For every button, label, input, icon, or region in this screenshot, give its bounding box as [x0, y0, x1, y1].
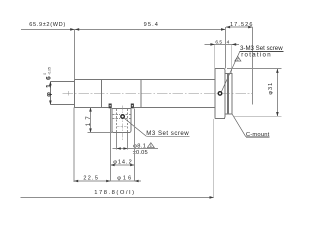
dim line 22.5 / phi16: [74, 180, 141, 182]
block set screw M3: [121, 115, 125, 119]
dim 6.5 / 4: [205, 43, 239, 45]
svg-text:φ8.1: φ8.1: [133, 143, 146, 149]
ext line at block bottom level: [87, 132, 112, 134]
label phi16 0/-0.05: [43, 67, 53, 97]
svg-text:φ31: φ31: [268, 83, 274, 95]
svg-text:2: 2: [237, 58, 239, 62]
hidden bore lines: [117, 109, 128, 132]
dim 17 vertical: [90, 108, 92, 133]
phi14.2 dimension line: [110, 164, 134, 166]
svg-text:-0.05: -0.05: [48, 67, 52, 75]
flange: [215, 69, 225, 119]
thread lines: [226, 73, 228, 114]
phi16 / 22.5 extension lines: [74, 108, 134, 182]
svg-text:φ16: φ16: [117, 175, 131, 181]
phi8.1 extension lines: [117, 133, 128, 150]
svg-text:22.5: 22.5: [83, 175, 98, 181]
svg-text:±0.05: ±0.05: [133, 150, 148, 156]
ext line barrel right up: [231, 45, 233, 74]
right retaining ear: [131, 104, 134, 109]
ext line flange left up: [214, 45, 216, 69]
ext line flange left face down: [213, 119, 215, 198]
top dimension line 65.9 / 95.4: [21, 28, 225, 30]
phi31 dimension line: [276, 69, 278, 116]
svg-text:6.5: 6.5: [215, 39, 222, 45]
phi16 dimension line on end face: [49, 82, 51, 105]
leader 3-M3 set screw: [221, 52, 239, 92]
lower block (right-angle head): [112, 109, 131, 133]
block vertical centerline: [121, 105, 123, 140]
phi31 extension lines: [227, 69, 281, 117]
svg-text:0: 0: [43, 73, 47, 75]
image plane line: [251, 27, 253, 104]
ext line front face up: [74, 29, 76, 79]
svg-text:65.9±2(WD): 65.9±2(WD): [29, 22, 65, 28]
flange set screw: [218, 92, 222, 96]
main tube outline: [75, 80, 215, 108]
main centerline: [63, 92, 253, 94]
left retaining ear: [109, 104, 112, 109]
ext line flange right face up: [225, 27, 227, 69]
svg-text:φ14.2: φ14.2: [113, 159, 132, 165]
svg-text:178.8(O/I): 178.8(O/I): [94, 190, 134, 196]
leader M3 set screw: [124, 118, 146, 136]
set screw hole hidden lines: [112, 115, 131, 119]
svg-text:95.4: 95.4: [144, 22, 158, 28]
dim 17.526: [226, 26, 253, 28]
leader C-mount: [232, 114, 246, 137]
triangle flag 1: [147, 143, 154, 148]
C-mount barrel: [225, 73, 232, 114]
boss bottom line: [112, 108, 131, 110]
tube seam 1: [100, 80, 102, 108]
front vertex tick: [68, 91, 70, 95]
triangle flag 2: [235, 57, 241, 62]
front thin barrel phi16: [50, 82, 74, 105]
svg-text:M3 Set screw: M3 Set screw: [146, 130, 189, 137]
phi8.1 dimension line: [113, 148, 159, 150]
svg-text:C-mount: C-mount: [246, 132, 270, 138]
tube seam 2: [140, 80, 142, 108]
bottom dim 178.8(O/I): [21, 196, 214, 198]
svg-text:φ16: φ16: [46, 76, 53, 97]
svg-text:17.526: 17.526: [230, 22, 252, 28]
svg-text:4: 4: [227, 39, 230, 45]
